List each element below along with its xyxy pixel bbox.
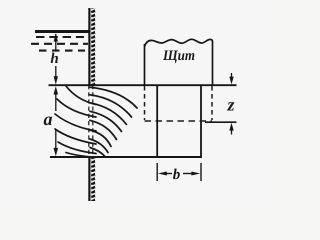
svg-text:Щит: Щит — [162, 48, 195, 64]
svg-text:b: b — [173, 167, 181, 183]
svg-text:h: h — [50, 51, 58, 67]
svg-text:a: a — [44, 109, 53, 129]
svg-text:z: z — [226, 95, 234, 115]
